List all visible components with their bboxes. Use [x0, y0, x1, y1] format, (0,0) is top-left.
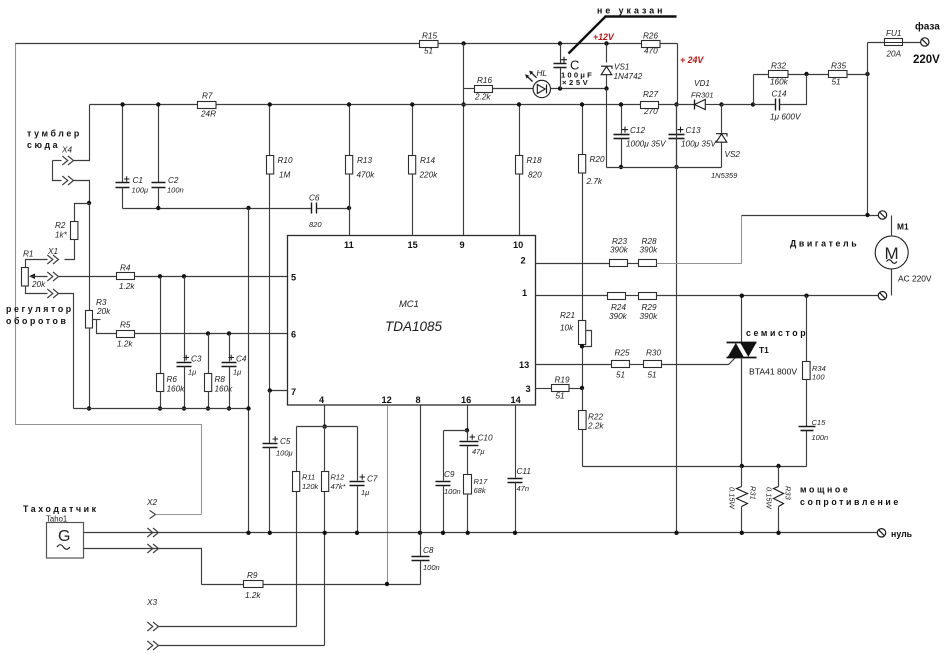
svg-text:Таходатчик: Таходатчик — [23, 504, 99, 514]
svg-text:24R: 24R — [200, 110, 216, 119]
node gnd C11 — [513, 531, 517, 535]
node C12 top — [619, 102, 623, 106]
wire analog column — [248, 209, 250, 533]
wire fuse column — [867, 43, 869, 216]
node R13 top — [347, 102, 351, 106]
svg-text:C4: C4 — [236, 355, 247, 364]
svg-text:390k: 390k — [610, 246, 629, 255]
connector X3 contact 2 — [147, 641, 324, 650]
svg-text:100μ: 100μ — [132, 186, 149, 195]
svg-text:R31: R31 — [748, 486, 757, 500]
svg-text:820: 820 — [528, 171, 542, 180]
svg-text:1N5359: 1N5359 — [711, 171, 738, 180]
svg-text:не указан: не указан — [597, 6, 665, 16]
svg-text:51: 51 — [616, 371, 625, 380]
svg-text:16: 16 — [461, 395, 471, 405]
node gnd R31 — [740, 531, 744, 535]
wire +24V column down — [676, 105, 678, 533]
resistor R18 — [516, 105, 543, 236]
resistor R19 — [552, 376, 570, 401]
resistor R24 — [608, 293, 628, 322]
svg-text:R16: R16 — [477, 76, 492, 85]
svg-text:13: 13 — [519, 360, 529, 370]
svg-text:R26: R26 — [643, 32, 658, 41]
potentiometer R1 20k — [22, 250, 47, 290]
resistor R2 — [55, 221, 78, 240]
svg-text:7: 7 — [291, 387, 296, 397]
svg-text:C14: C14 — [772, 90, 787, 99]
svg-text:1.2k: 1.2k — [117, 340, 133, 349]
wire pin4 to R12 — [324, 427, 326, 472]
svg-text:820: 820 — [309, 220, 322, 229]
svg-text:регулятор: регулятор — [6, 304, 74, 314]
wire R16 to LED — [493, 88, 534, 90]
resistor R31 zigzag — [728, 467, 758, 533]
LED HL — [525, 69, 550, 98]
wire analog ground rail — [74, 408, 249, 410]
svg-text:470k: 470k — [357, 171, 376, 180]
svg-text:HL: HL — [537, 69, 547, 78]
svg-text:C1: C1 — [133, 176, 143, 185]
svg-text:X2: X2 — [146, 498, 157, 507]
wire R2 top — [75, 204, 90, 222]
svg-text:0.15W: 0.15W — [728, 487, 737, 510]
node +12V — [604, 41, 608, 45]
node gnd C9 — [441, 531, 445, 535]
svg-text:сюда: сюда — [27, 140, 60, 150]
svg-text:R13: R13 — [357, 156, 372, 165]
wire R28 to motor top — [657, 216, 742, 264]
svg-text:10k: 10k — [560, 324, 574, 333]
svg-text:R11: R11 — [302, 473, 315, 482]
wire R3 bottom to ground rail — [89, 328, 91, 409]
resistor R8 — [205, 334, 234, 409]
svg-text:R5: R5 — [120, 321, 131, 330]
svg-text:R20: R20 — [590, 155, 605, 164]
svg-text:X4: X4 — [61, 146, 72, 155]
wire R22 bottom horizontal — [583, 466, 807, 468]
svg-text:R17: R17 — [474, 477, 489, 486]
node pin4 branch — [323, 424, 327, 428]
svg-text:R33: R33 — [784, 486, 793, 501]
capacitor C9 — [436, 431, 461, 533]
capacitor C8 — [412, 533, 440, 585]
svg-text:1μ 600V: 1μ 600V — [770, 113, 802, 122]
svg-text:C12: C12 — [630, 126, 645, 135]
wire motor top — [742, 215, 879, 217]
label тумблер сюда — [27, 129, 82, 155]
svg-text:R7: R7 — [202, 92, 213, 101]
svg-text:8: 8 — [416, 395, 421, 405]
svg-text:MC1: MC1 — [399, 298, 419, 309]
svg-text:1: 1 — [522, 288, 527, 298]
node analog column top — [246, 206, 250, 210]
capacitor C7 — [350, 427, 378, 533]
connector X4 top contact — [53, 105, 90, 166]
svg-text:VD1: VD1 — [694, 79, 710, 88]
svg-text:47μ: 47μ — [472, 447, 484, 456]
wire low rail under C12 C13 — [607, 167, 722, 169]
svg-text:9: 9 — [460, 240, 465, 250]
node C3 bottom — [182, 406, 186, 410]
wire top rail corner down to +24V column — [677, 44, 679, 105]
svg-text:1.2k: 1.2k — [119, 282, 135, 291]
wire R29 to motor bottom terminal — [657, 295, 879, 297]
node C3 top — [182, 274, 186, 278]
svg-text:сопротивление: сопротивление — [800, 497, 901, 507]
resistor R27 — [641, 90, 659, 116]
wire R32 leads — [754, 74, 829, 76]
resistor R6 — [157, 277, 186, 409]
node C2 bottom — [156, 206, 160, 210]
svg-text:BTA41 800V: BTA41 800V — [749, 367, 797, 377]
wire pin6 — [135, 333, 288, 335]
potentiometer R21 — [560, 311, 592, 389]
svg-text:51: 51 — [648, 371, 657, 380]
capacitor C14 — [754, 75, 807, 122]
svg-text:C11: C11 — [517, 467, 531, 476]
zener VS1 1N4742 — [601, 44, 643, 89]
node gnd R12 — [323, 531, 327, 535]
svg-text:семистор: семистор — [746, 328, 808, 338]
resistor R5 — [117, 321, 135, 349]
svg-text:120k: 120k — [302, 482, 320, 491]
node gnd C5 — [268, 531, 272, 535]
node motor top fuse column — [865, 213, 869, 217]
svg-text:+12V: +12V — [593, 32, 615, 42]
resistor R16 — [474, 76, 493, 102]
svg-text:Двигатель: Двигатель — [790, 239, 859, 249]
capacitor C13 — [669, 105, 718, 168]
svg-text:100n: 100n — [423, 563, 440, 572]
svg-text:R4: R4 — [120, 264, 131, 273]
op-amp U1 TDA1085 body — [288, 236, 536, 406]
wire LED to VS1 node — [551, 88, 607, 90]
node triac motor wire — [740, 294, 744, 298]
node C1 top — [120, 102, 124, 106]
svg-text:R10: R10 — [278, 156, 293, 165]
resistor R35 — [829, 62, 848, 87]
svg-text:20A: 20A — [886, 50, 902, 59]
node R15 output — [461, 41, 465, 45]
resistor R10 — [267, 105, 293, 391]
resistor R32 — [769, 62, 789, 87]
svg-text:220k: 220k — [419, 171, 439, 180]
svg-text:390k: 390k — [609, 312, 628, 321]
node R18 top — [517, 102, 521, 106]
wire R27 to FR301 — [659, 104, 695, 106]
svg-text:TDA1085: TDA1085 — [385, 319, 443, 334]
node gnd analog column — [246, 531, 250, 535]
svg-text:20k: 20k — [31, 280, 46, 289]
svg-text:1M: 1M — [279, 171, 291, 180]
node R33 top — [776, 464, 780, 468]
capacitor C5 — [263, 391, 293, 533]
resistor R30 — [644, 349, 662, 380]
node R14 top — [410, 102, 414, 106]
svg-text:VS2: VS2 — [725, 150, 741, 159]
svg-text:2.7k: 2.7k — [586, 177, 603, 186]
wire pin5 — [135, 276, 288, 278]
wire pin4 branch — [297, 426, 358, 428]
label Таходатчик — [23, 504, 99, 524]
svg-text:1N4742: 1N4742 — [614, 72, 643, 81]
svg-text:M1: M1 — [897, 222, 909, 232]
svg-text:51: 51 — [424, 47, 433, 56]
svg-text:AC 220V: AC 220V — [898, 274, 932, 284]
capacitor C4 — [222, 334, 247, 409]
node C plus rail — [558, 41, 562, 45]
wire R35 to fuse column — [848, 74, 868, 76]
triac T1 — [727, 296, 798, 467]
capacitor C1 — [116, 105, 149, 209]
svg-text:X3: X3 — [146, 598, 157, 607]
wire top supply rail — [16, 43, 678, 45]
svg-text:470: 470 — [644, 47, 658, 56]
svg-text:R25: R25 — [615, 349, 630, 358]
svg-text:1.2k: 1.2k — [245, 591, 261, 600]
svg-text:R3: R3 — [96, 298, 107, 307]
svg-text:100μ: 100μ — [276, 449, 293, 458]
resistor R17 — [464, 475, 489, 533]
resistor R23 — [610, 237, 629, 267]
node R32 right — [804, 72, 808, 76]
svg-text:R22: R22 — [588, 413, 603, 422]
svg-text:R8: R8 — [215, 375, 226, 384]
terminal фаза — [913, 21, 940, 67]
svg-text:14: 14 — [511, 395, 522, 405]
node pin7 — [268, 388, 272, 392]
svg-text:C2: C2 — [168, 176, 179, 185]
svg-text:C7: C7 — [367, 475, 378, 484]
terminal motor bottom — [878, 292, 886, 300]
wire VS2 node to C14 branch — [722, 104, 754, 106]
diode VD1 FR301 — [691, 79, 722, 110]
node rail/pin9 crossing — [461, 102, 465, 106]
svg-text:1000μ 35V: 1000μ 35V — [626, 140, 667, 149]
node C minus — [558, 86, 562, 90]
node R21 wiper junction — [580, 344, 584, 348]
node C14 left — [751, 102, 755, 106]
tacho generator G box — [47, 523, 84, 559]
node fuse column — [865, 72, 869, 76]
svg-text:X1: X1 — [47, 247, 58, 256]
svg-text:2.2k: 2.2k — [474, 93, 491, 102]
svg-text:R29: R29 — [642, 303, 657, 312]
svg-text:R24: R24 — [611, 303, 626, 312]
svg-text:R6: R6 — [167, 375, 178, 384]
svg-text:R27: R27 — [643, 90, 658, 99]
svg-text:390k: 390k — [640, 312, 659, 321]
node C4 bottom — [227, 406, 231, 410]
svg-text:220V: 220V — [913, 54, 940, 66]
svg-text:+ 24V: + 24V — [680, 55, 704, 65]
node gnd pin8 — [418, 531, 422, 535]
capacitor C10 — [460, 431, 493, 475]
svg-text:C15: C15 — [812, 418, 827, 427]
svg-text:C9: C9 — [444, 470, 455, 479]
resistor R13 — [346, 105, 376, 236]
svg-text:390k: 390k — [640, 246, 659, 255]
node R6 top — [158, 274, 162, 278]
terminal нуль — [877, 529, 912, 539]
svg-text:1μ: 1μ — [361, 488, 369, 497]
wire R23 R28 — [628, 263, 639, 265]
svg-text:3: 3 — [526, 384, 531, 394]
resistor R20 — [579, 105, 605, 321]
node gnd R33 — [776, 531, 780, 535]
svg-text:R12: R12 — [331, 473, 346, 482]
svg-text:15: 15 — [408, 240, 418, 250]
connector X4 bottom contact — [53, 161, 90, 204]
wire R15 node down to pin 9 — [463, 44, 465, 236]
svg-text:C5: C5 — [280, 437, 291, 446]
resistor R15 — [420, 32, 439, 56]
svg-text:68k: 68k — [474, 486, 487, 495]
node gnd +24V column — [674, 531, 678, 535]
capacitor C 100uF x25V — [554, 44, 594, 89]
svg-text:10: 10 — [513, 240, 523, 250]
svg-text:1μ: 1μ — [233, 368, 241, 377]
node R2 junction — [87, 201, 91, 205]
node C4 top — [227, 331, 231, 335]
wire C9 branch — [444, 430, 468, 432]
resistor R26 — [642, 32, 661, 56]
svg-text:5: 5 — [291, 273, 296, 283]
connector X1 — [26, 247, 59, 268]
wire R1 wiper to R4 — [31, 272, 117, 281]
svg-text:6: 6 — [291, 330, 296, 340]
svg-text:100n: 100n — [167, 186, 184, 195]
wire R1 bottom contact — [26, 287, 74, 409]
svg-text:R14: R14 — [420, 156, 435, 165]
svg-text:C6: C6 — [309, 194, 320, 203]
svg-text:R35: R35 — [831, 62, 846, 71]
node R6 bottom — [158, 406, 162, 410]
resistor R9 — [202, 571, 421, 600]
fuse FU1 — [868, 29, 921, 59]
wire VS1 node down to low rail — [606, 89, 608, 168]
svg-text:R2: R2 — [55, 221, 66, 230]
svg-text:R9: R9 — [247, 571, 258, 580]
node gnd C7 — [355, 531, 359, 535]
svg-text:1μ: 1μ — [188, 368, 196, 377]
svg-text:нуль: нуль — [891, 529, 913, 539]
svg-text:C3: C3 — [191, 355, 202, 364]
node pin16 branch — [465, 428, 469, 432]
annotation не указан — [569, 6, 677, 54]
node R34 top — [804, 294, 808, 298]
wire pin4 — [324, 406, 326, 427]
node VS2 top — [719, 102, 723, 106]
capacitor C2 — [152, 105, 184, 209]
capacitor C15 — [799, 418, 829, 467]
resistor R14 — [409, 105, 439, 236]
resistor R12 — [322, 472, 347, 646]
wire tacho bottom — [84, 549, 202, 585]
wire R2R3 column — [89, 204, 91, 311]
capacitor C3 — [177, 277, 202, 409]
resistor R11 — [293, 427, 320, 627]
resistor R25 — [612, 349, 630, 380]
node R9 to pin12 — [385, 582, 389, 586]
svg-text:FR301: FR301 — [691, 91, 714, 100]
wire R24 R29 — [626, 295, 639, 297]
svg-text:C13: C13 — [686, 126, 701, 135]
svg-text:270: 270 — [643, 107, 658, 116]
resistor R33 zigzag — [764, 467, 792, 533]
svg-text:12: 12 — [382, 395, 392, 405]
wire R32 loop left leg — [753, 75, 755, 105]
terminal motor top — [878, 211, 886, 219]
svg-text:R32: R32 — [771, 62, 786, 71]
svg-text:160k: 160k — [215, 385, 234, 394]
label мощное сопротивление — [800, 485, 901, 508]
node pin3 column — [580, 386, 584, 390]
wire pin1 to R24 — [536, 295, 608, 297]
resistor R34 — [803, 296, 826, 427]
node R8 top — [206, 331, 210, 335]
wire R25 R30 — [630, 364, 644, 366]
svg-text:51: 51 — [556, 392, 565, 401]
node gnd R17 — [466, 531, 470, 535]
resistor R7 — [198, 92, 217, 119]
node R10 top — [268, 102, 272, 106]
node C2 top — [156, 102, 160, 106]
node C12 bottom — [619, 165, 623, 169]
svg-text:20k: 20k — [96, 307, 111, 316]
connector tacho bottom chevron — [147, 544, 158, 553]
connector X3 contact 1 — [147, 622, 296, 631]
svg-text:фаза: фаза — [915, 21, 940, 33]
resistor R4 — [117, 264, 136, 292]
node R31 top — [740, 464, 744, 468]
zener VS2 1N5359 — [711, 105, 740, 181]
svg-text:R1: R1 — [23, 250, 33, 259]
svg-text:R18: R18 — [527, 156, 542, 165]
svg-text:C10: C10 — [478, 434, 493, 443]
svg-text:2.2k: 2.2k — [587, 422, 604, 431]
svg-text:R15: R15 — [422, 32, 437, 41]
svg-text:0.15W: 0.15W — [764, 487, 773, 510]
svg-text:2: 2 — [521, 256, 526, 266]
svg-text:100μ 35V: 100μ 35V — [681, 140, 718, 149]
node VS1 bottom — [604, 86, 608, 90]
svg-text:4: 4 — [319, 395, 325, 405]
svg-text:тумблер: тумблер — [27, 129, 82, 139]
wire C1 C2 bottom rail — [123, 208, 312, 210]
wire pin16 — [467, 406, 469, 431]
svg-text:51: 51 — [832, 78, 841, 87]
node analog ground to column — [246, 406, 250, 410]
svg-text:R30: R30 — [646, 349, 661, 358]
svg-text:G: G — [58, 528, 70, 545]
svg-text:VS1: VS1 — [614, 63, 629, 72]
connector X2 — [146, 498, 202, 519]
potentiometer R3 20k — [86, 298, 117, 334]
node R8 bottom — [206, 406, 210, 410]
svg-text:×25V: ×25V — [562, 78, 590, 87]
svg-text:оборотов: оборотов — [6, 316, 68, 326]
motor M1 — [875, 216, 932, 296]
svg-text:мощное: мощное — [800, 485, 850, 495]
svg-text:100n: 100n — [812, 433, 829, 442]
wire pin12 — [387, 406, 389, 585]
wire pin2 to R23 — [536, 263, 610, 265]
wire main ground rail — [84, 532, 878, 534]
svg-text:T1: T1 — [759, 345, 769, 355]
svg-text:1k*: 1k* — [55, 231, 68, 240]
